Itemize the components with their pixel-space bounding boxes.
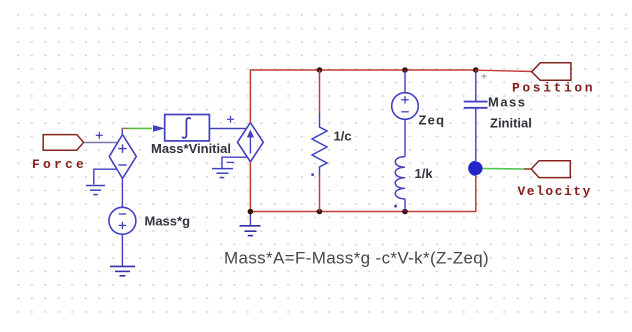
svg-text:Force: Force xyxy=(32,157,87,172)
inductor L 1/k xyxy=(395,157,405,199)
capacitor C Mass xyxy=(464,102,488,108)
viewpoint bubble (velocity probe) xyxy=(469,162,483,176)
wire summer input 2 to ground xyxy=(94,169,117,184)
svg-text:Zeq: Zeq xyxy=(419,113,446,128)
svg-text:Mass*Vinitial: Mass*Vinitial xyxy=(151,141,231,156)
junction dot top Zeq xyxy=(402,67,408,73)
ground (bottom bus) xyxy=(240,212,261,236)
svg-text:1/c: 1/c xyxy=(334,129,352,144)
pin marker (R pin 2) xyxy=(311,173,314,176)
ground (G control) xyxy=(212,169,233,178)
wire resistor bottom xyxy=(319,175,321,212)
ground (Mass*g) xyxy=(110,266,135,275)
junction dot bottom resistor xyxy=(317,209,323,215)
wire G source to bottom bus xyxy=(249,162,251,212)
integrator U1 xyxy=(165,115,210,141)
port Force xyxy=(43,135,83,151)
svg-text:Velocity: Velocity xyxy=(518,184,592,199)
wire Force to summer input 1 xyxy=(84,142,118,144)
svg-text:Position: Position xyxy=(512,81,595,96)
bubble hop arc xyxy=(469,161,476,175)
wire green segment xyxy=(129,127,152,129)
source V Mass*g xyxy=(109,207,136,234)
pin marker - (G control) xyxy=(227,161,235,163)
wire integrator output to G source xyxy=(209,128,247,130)
wire inductor bottom xyxy=(404,199,406,212)
resistor R 1/c xyxy=(312,114,327,176)
junction dot top capacitor xyxy=(473,67,479,73)
wire summer output up xyxy=(121,128,123,135)
svg-text:1/k: 1/k xyxy=(415,166,434,181)
ground (summer input 2) xyxy=(86,186,105,195)
pin marker + (G control) xyxy=(227,116,234,123)
wire capacitor top xyxy=(475,70,477,101)
junction dot top resistor xyxy=(317,67,323,73)
wire Zeq top xyxy=(404,70,406,93)
port Position xyxy=(532,63,571,81)
wire Zeq to inductor xyxy=(404,119,406,156)
dependent source G1 mass current xyxy=(238,123,264,162)
wire summer to Massg source xyxy=(121,179,123,208)
svg-text:Mass: Mass xyxy=(488,95,527,110)
wire bottom bus xyxy=(250,175,475,211)
wire Massg to ground xyxy=(121,234,123,266)
wire G control minus to ground xyxy=(222,157,248,168)
junction dot bottom ground xyxy=(248,209,254,215)
wire top bus to Position port xyxy=(476,70,532,71)
svg-text:Mass*g: Mass*g xyxy=(145,214,191,229)
junction dot bottom inductor xyxy=(402,209,408,215)
integrator input arrow xyxy=(153,125,165,132)
svg-text:Zinitial: Zinitial xyxy=(490,116,532,131)
wire summer to integrator (colored net) xyxy=(122,127,129,129)
wire velocity port stub xyxy=(524,168,531,170)
source V Zeq xyxy=(392,93,419,120)
svg-text:Mass*A=F-Mass*g -c*V-k*(Z-Zeq): Mass*A=F-Mass*g -c*V-k*(Z-Zeq) xyxy=(224,249,489,268)
port Velocity xyxy=(531,161,570,178)
wire red riser to top bus xyxy=(250,70,475,123)
wire capacitor to bubble xyxy=(475,108,477,162)
pin marker (position wire) xyxy=(482,74,487,79)
wire resistor top xyxy=(319,70,321,114)
wire bubble to Velocity port xyxy=(482,168,524,171)
pin marker + (summer input 1) xyxy=(96,132,103,139)
pin marker (L pin 2) xyxy=(394,205,397,208)
dependent source E1 force summer xyxy=(109,135,136,179)
